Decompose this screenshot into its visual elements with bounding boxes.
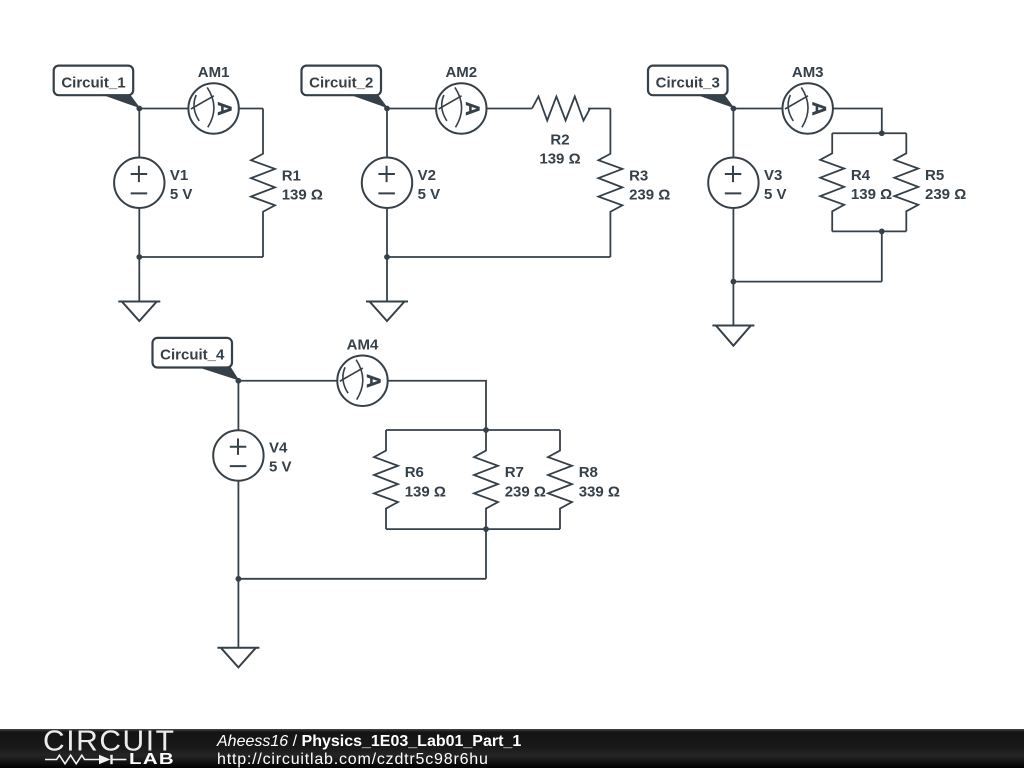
wire parallel bottom bar (832, 230, 906, 232)
ammeter AM2 (436, 83, 486, 133)
svg-text:A: A (213, 102, 235, 116)
junction parallel bottom (879, 229, 885, 235)
svg-text:Circuit_4: Circuit_4 (160, 347, 225, 364)
wire (238, 578, 486, 580)
svg-text:AM2: AM2 (445, 64, 477, 81)
wire (139, 108, 188, 110)
ground (366, 257, 408, 321)
svg-text:R3: R3 (629, 167, 648, 184)
wire (387, 256, 610, 258)
node circuit 4 top (236, 378, 242, 384)
resistor R7 (474, 430, 498, 529)
svg-text:239 Ω: 239 Ω (925, 186, 966, 203)
node circuit 1 top (136, 106, 142, 112)
svg-text:5 V: 5 V (764, 186, 787, 203)
svg-text:139 Ω: 139 Ω (539, 151, 580, 168)
svg-text:Circuit_3: Circuit_3 (656, 74, 720, 91)
node circuit 4 bottom (236, 576, 242, 582)
node circuit 3 bottom (731, 279, 737, 285)
node circuit 2 bottom (384, 254, 390, 260)
wire parallel top bar (386, 429, 560, 431)
wire parallel bottom bar (386, 528, 560, 530)
svg-text:V2: V2 (418, 167, 436, 184)
CircuitLab logo resistor-diode glyph (45, 751, 127, 767)
callout pointer Circuit_2 (349, 94, 388, 108)
resistor R8 (548, 430, 572, 529)
wire (732, 208, 734, 282)
wire (588, 108, 610, 110)
footer title (217, 733, 521, 751)
svg-text:A: A (362, 374, 384, 388)
callout pointer Circuit_4 (197, 367, 240, 381)
resistor R3 (598, 109, 622, 258)
svg-text:R2: R2 (550, 131, 569, 148)
label box Circuit_1 (54, 66, 134, 96)
ground (217, 579, 259, 668)
svg-text:339 Ω: 339 Ω (579, 483, 620, 500)
footer url (217, 751, 489, 768)
wire (138, 208, 140, 257)
svg-text:239 Ω: 239 Ω (505, 483, 546, 500)
wire (485, 529, 487, 579)
node circuit 1 bottom (136, 254, 142, 260)
voltage source V3 (708, 158, 758, 208)
svg-text:Circuit_2: Circuit_2 (309, 74, 373, 91)
wire (239, 108, 263, 110)
svg-text:R7: R7 (505, 464, 524, 481)
resistor R5 (894, 133, 918, 231)
wire (387, 108, 436, 110)
label box Circuit_3 (648, 66, 728, 96)
svg-text:V1: V1 (170, 167, 188, 184)
wire (881, 231, 883, 281)
svg-text:R6: R6 (405, 464, 424, 481)
svg-text:R1: R1 (282, 167, 301, 184)
ground (118, 257, 160, 321)
resistor R6 (374, 430, 398, 529)
label box Circuit_4 (153, 338, 233, 368)
junction parallel top (879, 130, 885, 136)
svg-text:V4: V4 (269, 440, 288, 457)
label box Circuit_2 (302, 66, 382, 96)
svg-text:R8: R8 (579, 464, 598, 481)
svg-text:R4: R4 (851, 167, 871, 184)
voltage source V4 (213, 430, 263, 480)
callout pointer Circuit_1 (101, 94, 140, 108)
wire (386, 208, 388, 257)
resistor R4 (820, 133, 844, 231)
wire (237, 481, 239, 579)
wire (238, 380, 337, 382)
svg-text:139 Ω: 139 Ω (851, 186, 892, 203)
wire (733, 281, 881, 283)
svg-text:139 Ω: 139 Ω (405, 483, 446, 500)
voltage source V2 (362, 158, 412, 208)
svg-text:5 V: 5 V (418, 186, 441, 203)
wire (139, 256, 263, 258)
svg-text:5 V: 5 V (170, 186, 193, 203)
svg-text:A: A (807, 102, 829, 116)
wire (487, 108, 533, 110)
svg-text:239 Ω: 239 Ω (629, 187, 670, 204)
ground (712, 282, 754, 346)
svg-text:AM3: AM3 (792, 64, 824, 81)
svg-text:A: A (461, 102, 483, 116)
junction parallel bottom (483, 526, 489, 532)
svg-text:AM1: AM1 (198, 64, 230, 81)
node circuit 3 top (731, 106, 737, 112)
wire (388, 381, 486, 430)
junction parallel top (483, 427, 489, 433)
svg-text:Circuit_1: Circuit_1 (61, 74, 125, 91)
svg-text:AM4: AM4 (347, 336, 379, 353)
svg-text:V3: V3 (764, 167, 782, 184)
wire (733, 108, 782, 110)
ammeter AM1 (188, 83, 238, 133)
wire (237, 381, 239, 431)
node circuit 2 top (384, 106, 390, 112)
wire (138, 109, 140, 158)
svg-text:139 Ω: 139 Ω (282, 187, 323, 204)
resistor R2 (532, 97, 590, 121)
wire parallel top bar (832, 132, 906, 134)
CircuitLab logo LAB text (129, 751, 175, 768)
wire (732, 109, 734, 158)
callout pointer Circuit_3 (695, 94, 734, 108)
svg-text:5 V: 5 V (269, 459, 292, 476)
CircuitLab logo wordmark (43, 726, 176, 758)
svg-text:R5: R5 (925, 167, 944, 184)
voltage source V1 (114, 158, 164, 208)
ammeter AM3 (783, 83, 833, 133)
wire (833, 109, 882, 134)
ammeter AM4 (337, 356, 387, 406)
wire (386, 109, 388, 158)
resistor R1 (251, 109, 275, 258)
